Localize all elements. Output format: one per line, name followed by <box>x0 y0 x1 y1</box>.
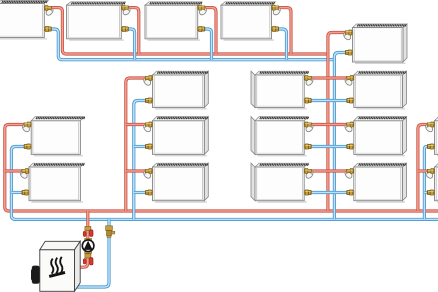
radiator left col row3 <box>31 117 85 156</box>
lockshield valve left row4 <box>22 190 29 195</box>
return stub mid row4 <box>134 191 147 194</box>
thermostatic valve col3 row4 <box>304 169 314 180</box>
lockshield valve rad4 <box>272 26 279 31</box>
return stub mid row3 <box>134 145 147 148</box>
supply stub mid row4 <box>126 169 147 172</box>
supply stub col3 row3 <box>310 123 328 126</box>
supply drop rad3 <box>204 8 216 54</box>
lockshield valve right col row4 <box>347 190 354 195</box>
thermostatic valve mid row3 <box>142 122 152 133</box>
thermostatic valve col3 row2 <box>304 76 314 87</box>
supply riser far-right <box>418 125 430 212</box>
valve on boiler return drop <box>106 226 115 238</box>
lockshield valve far-right row3 <box>427 144 434 149</box>
thermostatic valve mid row4 <box>142 169 152 180</box>
radiator top-row 2 <box>67 2 126 40</box>
thermostatic valve mid row2 <box>142 76 152 87</box>
return drop rad4 <box>278 29 287 60</box>
radiator right col row3 <box>354 117 407 156</box>
supply stub left row4 <box>5 169 23 172</box>
return stub right col row4 <box>334 191 349 194</box>
lockshield valve rad2 <box>121 26 128 31</box>
lockshield valve R5 <box>345 50 352 55</box>
radiator far-right row4 <box>435 163 438 202</box>
return stub left row4 <box>11 191 23 194</box>
lockshield valve far-right row4 <box>427 190 434 195</box>
radiator top-row 3 <box>145 2 202 40</box>
supply stub col3 row2 <box>310 76 328 79</box>
return stub far-right row4 <box>424 191 429 194</box>
thermostatic valve rad1 <box>44 6 54 17</box>
boiler supply drop <box>74 211 88 267</box>
lockshield valve col3 row3 <box>304 144 311 149</box>
thermostatic valve left row3 <box>21 122 31 133</box>
return bottom run + left riser <box>11 147 438 220</box>
radiator mid col row4 <box>153 163 209 202</box>
supply stub right col row4 <box>328 169 349 172</box>
supply riser col3 <box>328 33 347 212</box>
radiator left col row4 <box>29 163 84 202</box>
return main upper run <box>51 29 335 60</box>
return riser mid col <box>134 101 147 220</box>
thermostatic valve right col row4 <box>344 169 354 180</box>
lockshield valve mid row2 <box>145 98 152 103</box>
supply stub far-right row4 <box>418 169 430 172</box>
supply stub right col row2 <box>328 76 349 79</box>
isolation valve above pump <box>83 226 93 236</box>
lockshield valve col3 row2 <box>304 98 311 103</box>
supply stub right col row3 <box>328 123 349 126</box>
return riser far-right <box>424 147 429 220</box>
radiator far-right row3 <box>435 117 438 156</box>
radiator top-right R5 <box>353 24 408 63</box>
radiator col3 row3 <box>251 117 309 156</box>
supply main upper run <box>51 8 328 54</box>
thermostatic valve R5 <box>342 30 352 41</box>
boiler <box>40 241 80 291</box>
radiator right col row2 <box>354 71 407 109</box>
radiator right col row4 <box>354 163 407 202</box>
lockshield valve right col row3 <box>347 144 354 149</box>
thermostatic valve left row4 <box>19 169 29 180</box>
radiator mid col row3 <box>153 117 209 156</box>
supply drop rad4 <box>278 8 292 54</box>
radiator mid col row2 <box>153 71 209 109</box>
radiator top-row 4 <box>221 2 276 40</box>
thermostatic valve rad3 <box>198 5 208 16</box>
return riser col3 <box>334 53 347 220</box>
thermostatic valve far-right row3 <box>424 122 434 133</box>
radiator top-row 1 <box>0 1 48 39</box>
isolation valve below pump <box>83 254 93 265</box>
supply riser mid col <box>126 78 147 211</box>
supply drop rad2 <box>128 8 139 54</box>
boiler return drop <box>74 219 110 287</box>
lockshield valve left row3 <box>24 144 31 149</box>
lockshield valve mid row4 <box>145 190 152 195</box>
thermostatic valve rad2 <box>121 5 131 16</box>
supply stub col3 row4 <box>310 169 328 172</box>
return stub col3 row4 <box>310 191 335 194</box>
boiler flue tab <box>31 266 40 284</box>
lockshield valve rad1 <box>44 26 51 31</box>
return stub col3 row2 <box>310 99 335 102</box>
boiler flame icon <box>49 257 65 277</box>
return stub col3 row3 <box>310 145 335 148</box>
thermostatic valve right col row2 <box>344 76 354 87</box>
thermostatic valve far-right row4 <box>424 169 434 180</box>
return drop rad2 <box>128 29 135 60</box>
return drop rad3 <box>204 29 212 60</box>
thermostatic valve rad4 <box>272 5 282 16</box>
supply bottom run + left riser <box>5 125 438 212</box>
lockshield valve mid row3 <box>145 144 152 149</box>
lockshield valve right col row2 <box>347 98 354 103</box>
lockshield valve rad3 <box>198 26 205 31</box>
supply stub mid row3 <box>126 123 147 126</box>
lockshield valve col3 row4 <box>304 190 311 195</box>
thermostatic valve right col row3 <box>344 122 354 133</box>
circulation pump <box>82 238 94 253</box>
radiator col3 row2 <box>251 71 309 109</box>
thermostatic valve col3 row3 <box>304 122 314 133</box>
radiator col3 row4 <box>251 163 309 202</box>
return stub right col row3 <box>334 145 349 148</box>
return stub right col row2 <box>334 99 349 102</box>
